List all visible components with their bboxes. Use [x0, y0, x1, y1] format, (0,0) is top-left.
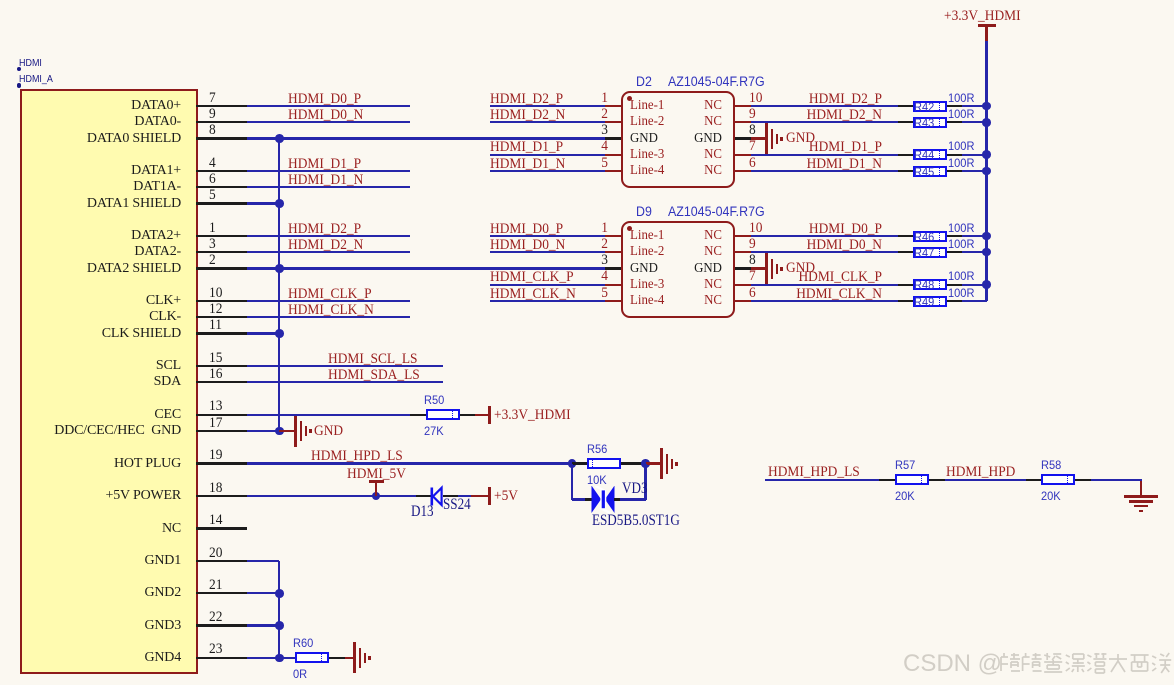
wire GND3 — [0, 0, 1, 1]
D2 pin 1 — [0, 0, 1, 1]
resistor R46 100R — [0, 0, 1, 1]
resistor R60 — [0, 0, 1, 1]
D2 pin name NC right — [0, 0, 1, 1]
net label HDMI_D1_N at D2 input — [0, 0, 1, 1]
power port +3.3V_HDMI at R50 — [0, 0, 1, 1]
D2 pin name Line-2 — [0, 0, 1, 1]
D9 pin name NC right — [0, 0, 1, 1]
net label HDMI_HPD_LS — [0, 0, 1, 1]
wire net HDMI_CLK_N into D9 — [0, 0, 1, 1]
wire net HDMI_D2_N into D2 — [0, 0, 1, 1]
watermark CSDN — [0, 0, 1, 1]
connector pin 11 CLK SHIELD — [0, 0, 1, 1]
net label HDMI_D0_P — [0, 0, 1, 1]
wire net HDMI_D1_P out of D2 — [0, 0, 1, 1]
wire to earth ground — [0, 0, 1, 1]
power port HDMI_5V — [0, 0, 1, 1]
D2 pin 2 — [0, 0, 1, 1]
wire HDMI_HPD_LS from pin19 — [0, 0, 1, 1]
junction GND3 — [0, 0, 1, 1]
resistor R44 100R — [0, 0, 1, 1]
net label HDMI_D1_P — [0, 0, 1, 1]
wire shield rail vertical — [0, 0, 1, 1]
label GND at D9 pin 8 — [0, 0, 1, 1]
D9 pin 5 — [0, 0, 1, 1]
junction shield/DATA2 — [0, 0, 1, 1]
wire DDC/CEC/HEC GND — [0, 0, 1, 1]
net label HDMI_D1_P at D2 input — [0, 0, 1, 1]
connector pin 23 GND4 — [0, 0, 1, 1]
connector pin 1 DATA2+ — [0, 0, 1, 1]
wire net HDMI_CLK_N out of D9 — [0, 0, 1, 1]
connector pin 14 NC — [0, 0, 1, 1]
designator D2 — [0, 0, 1, 1]
D2 pin 10 — [0, 0, 1, 1]
net label HDMI_SCL_LS — [0, 0, 1, 1]
resistor R50 — [0, 0, 1, 1]
junction R48 to 3.3V rail — [0, 0, 1, 1]
wire net HDMI_D2_P — [0, 0, 1, 1]
net label HDMI_D1_N at D2 output — [0, 0, 1, 1]
wire CEC to R50 — [0, 0, 1, 1]
wire net HDMI_D1_P — [0, 0, 1, 1]
junction shield/DATA0 — [0, 0, 1, 1]
connector pin 22 GND3 — [0, 0, 1, 1]
ESD array D9 AZ1045-04F.R7G body — [0, 0, 1, 1]
wire net HDMI_CLK_P — [0, 0, 1, 1]
wire net HDMI_D0_P — [0, 0, 1, 1]
junction GND4 — [0, 0, 1, 1]
wire DATA2 SHIELD to D9 pin3 — [0, 0, 1, 1]
D9 pin 8 — [0, 0, 1, 1]
connector pin 7 DATA0+ — [0, 0, 1, 1]
connector pin 8 DATA0 SHIELD — [0, 0, 1, 1]
junction R47 to 3.3V rail — [0, 0, 1, 1]
value AZ1045-04F.R7G of D9 — [0, 0, 1, 1]
D2 pin name GND right — [0, 0, 1, 1]
D2 pin name Line-3 — [0, 0, 1, 1]
connector pin 19 HOT PLUG — [0, 0, 1, 1]
resistor R47 100R — [0, 0, 1, 1]
connector pin 21 GND2 — [0, 0, 1, 1]
net label HDMI_CLK_N at D9 input — [0, 0, 1, 1]
D9 pin 7 — [0, 0, 1, 1]
ground at R56 — [0, 0, 1, 1]
resistor R57 20K — [0, 0, 1, 1]
diode D13 SS24 — [0, 0, 1, 1]
net label HDMI_D0_N at D9 output — [0, 0, 1, 1]
connector pin 6 DAT1A- — [0, 0, 1, 1]
junction R46 to 3.3V rail — [0, 0, 1, 1]
TVS diode VD3 — [0, 0, 1, 1]
wire SCL — [0, 0, 1, 1]
D2 pin name Line-1 — [0, 0, 1, 1]
D9 pin name NC right — [0, 0, 1, 1]
wire GND2 — [0, 0, 1, 1]
net label HDMI_D1_P at D2 output — [0, 0, 1, 1]
connector pin 16 SDA — [0, 0, 1, 1]
wire net HDMI_D0_N out of D9 — [0, 0, 1, 1]
connector pin 10 CLK+ — [0, 0, 1, 1]
wire net HDMI_D2_N out of D2 — [0, 0, 1, 1]
connector pin 2 DATA2 SHIELD — [0, 0, 1, 1]
D2 pin name NC right — [0, 0, 1, 1]
D2 pin name GND — [0, 0, 1, 1]
D2 pin 7 — [0, 0, 1, 1]
wire GND1 — [0, 0, 1, 1]
D9 pin 10 — [0, 0, 1, 1]
wire +5V POWER from pin18 — [0, 0, 1, 1]
net label HDMI_D0_N — [0, 0, 1, 1]
junction shield/DATA1 — [0, 0, 1, 1]
junction DDC gnd — [0, 0, 1, 1]
ground at D9 pin 8 — [0, 0, 1, 1]
connector pin 3 DATA2- — [0, 0, 1, 1]
ground at R60 — [0, 0, 1, 1]
D9 pin name NC right — [0, 0, 1, 1]
D9 pin 2 — [0, 0, 1, 1]
resistor R49 100R — [0, 0, 1, 1]
resistor R43 100R — [0, 0, 1, 1]
D9 pin name Line-2 — [0, 0, 1, 1]
D9 pin name GND — [0, 0, 1, 1]
wire net HDMI_D2_P into D2 — [0, 0, 1, 1]
port HDMI — [0, 0, 1, 1]
net label HDMI_CLK_N at D9 output — [0, 0, 1, 1]
connector pin 18 +5V POWER — [0, 0, 1, 1]
junction R44 to 3.3V rail — [0, 0, 1, 1]
net label HDMI_D2_P at D2 output — [0, 0, 1, 1]
net label HDMI_CLK_N — [0, 0, 1, 1]
label GND at D2 pin 8 — [0, 0, 1, 1]
ground GND at connector pin17 — [0, 0, 1, 1]
net label HDMI_D2_N at D2 input — [0, 0, 1, 1]
net label HDMI_SDA_LS — [0, 0, 1, 1]
net label HDMI_D0_N at D9 input — [0, 0, 1, 1]
net label HDMI_CLK_P at D9 output — [0, 0, 1, 1]
label SS24 — [0, 0, 1, 1]
connector pin 17 DDC/CEC/HEC GND — [0, 0, 1, 1]
wire +3.3V_HDMI rail vertical — [0, 0, 1, 1]
D2 pin 8 — [0, 0, 1, 1]
connector pin 20 GND1 — [0, 0, 1, 1]
wire net HDMI_D1_N into D2 — [0, 0, 1, 1]
D9 pin name Line-4 — [0, 0, 1, 1]
wire HDMI_HPD — [0, 0, 1, 1]
wire net HDMI_D1_N — [0, 0, 1, 1]
wire VD3 loop right — [0, 0, 1, 1]
label D13 — [0, 0, 1, 1]
D2 pin name Line-4 — [0, 0, 1, 1]
D9 pin 9 — [0, 0, 1, 1]
earth ground bottom right — [0, 0, 1, 1]
wire net HDMI_CLK_N — [0, 0, 1, 1]
wire net HDMI_D0_N — [0, 0, 1, 1]
D9 pin 1 — [0, 0, 1, 1]
wire gnd rail vertical — [0, 0, 1, 1]
connector pin 12 CLK- — [0, 0, 1, 1]
wire SDA — [0, 0, 1, 1]
wire net HDMI_CLK_P out of D9 — [0, 0, 1, 1]
net label HDMI_D2_P at D2 input — [0, 0, 1, 1]
junction HDMI_5V tap — [0, 0, 1, 1]
wire DATA0 SHIELD to D2 pin3 — [0, 0, 1, 1]
junction GND2 — [0, 0, 1, 1]
D9 pin 4 — [0, 0, 1, 1]
D2 pin name NC right — [0, 0, 1, 1]
wire net HDMI_D1_N out of D2 — [0, 0, 1, 1]
label VD3 — [0, 0, 1, 1]
junction HPD left — [0, 0, 1, 1]
label ESD5B5.0ST1G — [0, 0, 1, 1]
wire DATA1 SHIELD — [0, 0, 1, 1]
net label HDMI_CLK_P — [0, 0, 1, 1]
D9 pin name NC right — [0, 0, 1, 1]
wire HDMI_HPD_LS right section — [0, 0, 1, 1]
junction R45 to 3.3V rail — [0, 0, 1, 1]
net label HDMI_D0_P at D9 input — [0, 0, 1, 1]
wire net HDMI_D2_N — [0, 0, 1, 1]
net label HDMI_HPD — [0, 0, 1, 1]
D2 pin 5 — [0, 0, 1, 1]
D9 pin name Line-3 — [0, 0, 1, 1]
D2 pin 3 — [0, 0, 1, 1]
label GND pin17 — [0, 0, 1, 1]
resistor R56 10K — [0, 0, 1, 1]
D2 pin 6 — [0, 0, 1, 1]
wire net HDMI_D0_N into D9 — [0, 0, 1, 1]
junction R42 to 3.3V rail — [0, 0, 1, 1]
ground at D2 pin 8 — [0, 0, 1, 1]
junction HPD right — [0, 0, 1, 1]
net label HDMI_D1_N — [0, 0, 1, 1]
connector pin 13 CEC — [0, 0, 1, 1]
power port +3.3V_HDMI top — [0, 0, 1, 1]
resistor R45 100R — [0, 0, 1, 1]
wire net HDMI_CLK_P into D9 — [0, 0, 1, 1]
D9 pin 6 — [0, 0, 1, 1]
value AZ1045-04F.R7G of D2 — [0, 0, 1, 1]
junction R43 to 3.3V rail — [0, 0, 1, 1]
designator D9 — [0, 0, 1, 1]
connector pin 4 DATA1+ — [0, 0, 1, 1]
wire GND4 to R60 — [0, 0, 1, 1]
net label HDMI_D2_N at D2 output — [0, 0, 1, 1]
junction shield/CLK — [0, 0, 1, 1]
connector pin 5 DATA1 SHIELD — [0, 0, 1, 1]
wire VD3 loop left — [0, 0, 1, 1]
wire net HDMI_D1_P into D2 — [0, 0, 1, 1]
port HDMI_A — [0, 0, 1, 1]
wire net HDMI_D2_P out of D2 — [0, 0, 1, 1]
D9 pin name Line-1 — [0, 0, 1, 1]
D2 pin name NC right — [0, 0, 1, 1]
ESD array D2 AZ1045-04F.R7G body — [0, 0, 1, 1]
net label HDMI_D2_P — [0, 0, 1, 1]
D9 pin name GND right — [0, 0, 1, 1]
connector J1 HDMI body — [0, 0, 1, 1]
resistor R58 20K — [0, 0, 1, 1]
resistor R42 100R — [0, 0, 1, 1]
net label HDMI_D2_N — [0, 0, 1, 1]
D2 pin 9 — [0, 0, 1, 1]
wire CLK SHIELD — [0, 0, 1, 1]
D9 pin 3 — [0, 0, 1, 1]
wire net HDMI_D0_P out of D9 — [0, 0, 1, 1]
connector pin 15 SCL — [0, 0, 1, 1]
net label HDMI_D0_P at D9 output — [0, 0, 1, 1]
power port +5V — [0, 0, 1, 1]
resistor R48 100R — [0, 0, 1, 1]
D2 pin 4 — [0, 0, 1, 1]
net label HDMI_HPD_LS right — [0, 0, 1, 1]
wire net HDMI_D0_P into D9 — [0, 0, 1, 1]
net label HDMI_CLK_P at D9 input — [0, 0, 1, 1]
connector pin 9 DATA0- — [0, 0, 1, 1]
